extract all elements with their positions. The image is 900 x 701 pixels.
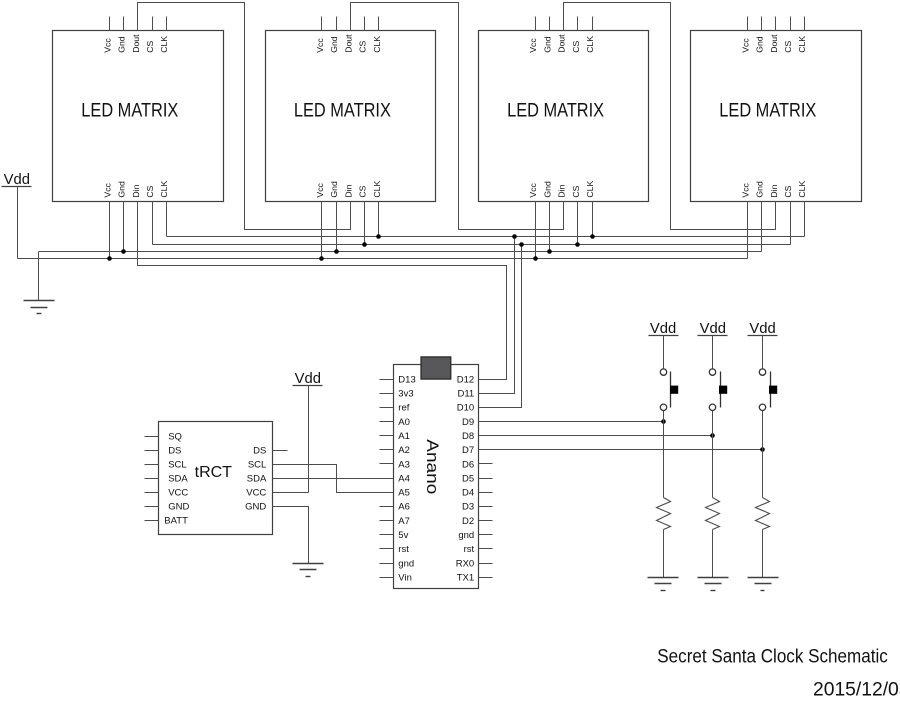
svg-text:Vcc: Vcc bbox=[528, 182, 538, 197]
junction U2 Gnd on GND bus bbox=[334, 249, 339, 254]
svg-text:LED MATRIX: LED MATRIX bbox=[507, 101, 604, 122]
pin CLK (top) U4 bbox=[797, 17, 807, 53]
svg-text:D11: D11 bbox=[457, 389, 474, 400]
pin CLK (top) U2 bbox=[372, 17, 382, 53]
pin Vcc (top) U4 bbox=[740, 17, 750, 53]
svg-text:Gnd: Gnd bbox=[542, 36, 552, 53]
pin label Vcc (bottom) U3 bbox=[528, 182, 538, 197]
pin label CLK (bottom) U2 bbox=[372, 180, 382, 197]
junction D11 on CLK bus bbox=[512, 234, 517, 239]
pin label Dout (top) U1 bbox=[131, 34, 141, 53]
svg-text:CLK: CLK bbox=[585, 180, 595, 197]
wire U4 Vcc pin to bus bbox=[747, 202, 749, 259]
svg-text:gnd: gnd bbox=[458, 530, 474, 541]
pin 3v3 U5 (left) bbox=[380, 389, 414, 400]
wire U2 CLK pin to bus bbox=[378, 202, 380, 237]
svg-text:GND: GND bbox=[245, 501, 266, 512]
pin A0 U5 (left) bbox=[380, 417, 410, 428]
wire U2 CS pin to bus bbox=[364, 202, 366, 245]
svg-text:Vin: Vin bbox=[398, 573, 412, 584]
pin Gnd (top) U2 bbox=[329, 17, 339, 53]
pin label DS U6 (right) bbox=[253, 445, 266, 456]
pin D5 U5 (right) bbox=[462, 473, 492, 484]
pin RX0 U5 (right) bbox=[456, 558, 493, 569]
svg-text:Gnd: Gnd bbox=[117, 36, 127, 53]
ground S1 bbox=[648, 578, 679, 591]
pin A2 U5 (left) bbox=[380, 445, 410, 456]
junction U2 CLK on CLK bus bbox=[376, 234, 381, 239]
wire S2 to resistor R2 bbox=[712, 411, 714, 498]
svg-text:D3: D3 bbox=[462, 502, 474, 513]
power symbol Vdd (S2) bbox=[698, 321, 728, 337]
svg-text:rst: rst bbox=[398, 544, 409, 555]
junction U1 Gnd on GND bus bbox=[121, 249, 126, 254]
power symbol Vdd (left rail) bbox=[2, 172, 32, 188]
wire U2 Vcc pin to bus bbox=[321, 202, 323, 259]
svg-text:CLK: CLK bbox=[797, 180, 807, 197]
pin Dout (top) U4 bbox=[769, 17, 779, 53]
svg-text:GND: GND bbox=[168, 501, 189, 512]
wire R3 to ground bbox=[762, 530, 764, 578]
svg-text:Secret Santa Clock Schematic: Secret Santa Clock Schematic bbox=[657, 647, 888, 668]
svg-text:CLK: CLK bbox=[159, 180, 169, 197]
resistor R1 bbox=[657, 498, 671, 530]
wire Vdd to switch S1 bbox=[663, 336, 665, 369]
junction D8 / S2 bbox=[710, 433, 715, 438]
junction U2 CS on CS bus bbox=[362, 242, 367, 247]
svg-text:CS: CS bbox=[145, 41, 155, 53]
pin SQ U6 (left) bbox=[145, 431, 182, 442]
pin D2 U5 (right) bbox=[462, 516, 492, 527]
pin label VCC U6 (right) bbox=[246, 487, 266, 498]
junction D9 / S1 bbox=[661, 419, 666, 424]
svg-text:Dout: Dout bbox=[557, 34, 567, 53]
svg-text:Dout: Dout bbox=[343, 34, 353, 53]
wire S1 to resistor R1 bbox=[663, 411, 665, 498]
svg-text:CS: CS bbox=[145, 185, 155, 197]
switch S3 (pushbutton) bbox=[759, 369, 777, 411]
pin label Gnd (bottom) U3 bbox=[542, 181, 552, 198]
pin A3 U5 (left) bbox=[380, 459, 410, 470]
svg-text:LED MATRIX: LED MATRIX bbox=[719, 101, 816, 122]
pin D13 U5 (left) bbox=[380, 374, 416, 385]
svg-text:A2: A2 bbox=[398, 445, 410, 456]
pin D4 U5 (right) bbox=[462, 488, 492, 499]
svg-text:A3: A3 bbox=[398, 459, 410, 470]
svg-text:A7: A7 bbox=[398, 516, 410, 527]
pin A4 U5 (left) bbox=[380, 473, 410, 484]
power symbol Vdd (S3) bbox=[748, 321, 778, 337]
svg-text:tRCT: tRCT bbox=[195, 464, 233, 481]
svg-text:Din: Din bbox=[557, 184, 567, 197]
wire Dout U2 to Din U3 (over-the-top bridge) bbox=[351, 3, 564, 230]
svg-text:Din: Din bbox=[131, 184, 141, 197]
wire U4 Gnd pin to bus bbox=[761, 202, 763, 252]
pin D11 U5 (right) bbox=[457, 389, 492, 400]
svg-text:Vdd: Vdd bbox=[4, 172, 30, 188]
svg-text:BATT: BATT bbox=[164, 515, 188, 526]
wire Vdd to VCC bus bbox=[17, 187, 19, 259]
svg-text:SQ: SQ bbox=[168, 431, 182, 442]
svg-text:Vcc: Vcc bbox=[740, 38, 750, 53]
LED matrix U2 bbox=[266, 31, 436, 202]
pin D9 U5 (right) bbox=[462, 417, 492, 428]
svg-text:Vcc: Vcc bbox=[528, 38, 538, 53]
wire U3 Vcc pin to bus bbox=[535, 202, 537, 259]
svg-text:Din: Din bbox=[343, 184, 353, 197]
svg-text:D8: D8 bbox=[462, 431, 474, 442]
svg-text:DS: DS bbox=[253, 445, 266, 456]
svg-text:VCC: VCC bbox=[246, 487, 266, 498]
junction U1 Vcc on VCC bus bbox=[107, 256, 112, 261]
wire U4 CS pin to bus bbox=[790, 202, 792, 245]
pin CS (top) U2 bbox=[358, 17, 368, 53]
ground S2 bbox=[698, 578, 729, 591]
power symbol Vdd (S1) bbox=[649, 321, 679, 337]
svg-text:Vcc: Vcc bbox=[315, 182, 325, 197]
pin A5 U5 (left) bbox=[380, 488, 410, 499]
svg-text:Vdd: Vdd bbox=[700, 321, 726, 337]
pin D3 U5 (right) bbox=[462, 502, 492, 513]
svg-text:Vdd: Vdd bbox=[650, 321, 676, 337]
svg-text:CS: CS bbox=[783, 185, 793, 197]
wire Dout U1 to Din U2 (over-the-top bridge) bbox=[138, 3, 351, 230]
svg-text:SDA: SDA bbox=[168, 473, 188, 484]
pin D12 U5 (right) bbox=[457, 374, 474, 385]
svg-text:LED MATRIX: LED MATRIX bbox=[294, 101, 391, 122]
svg-text:rst: rst bbox=[464, 544, 475, 555]
wire U1 Vcc pin to bus bbox=[109, 202, 111, 259]
junction U3 CLK on CLK bus bbox=[590, 234, 595, 239]
LED matrix U4 bbox=[691, 31, 862, 202]
pin gnd U5 (left) bbox=[380, 558, 415, 569]
pin rst U5 (left) bbox=[380, 544, 410, 555]
svg-text:CLK: CLK bbox=[585, 36, 595, 53]
svg-text:A5: A5 bbox=[398, 488, 410, 499]
pin D6 U5 (right) bbox=[462, 459, 492, 470]
wire D8 to switch S2 bbox=[479, 435, 713, 437]
pin label Vcc (bottom) U2 bbox=[315, 182, 325, 197]
svg-text:2015/12/05: 2015/12/05 bbox=[813, 680, 900, 697]
junction D10 on CS bus bbox=[519, 242, 524, 247]
wire U1 CLK pin to bus bbox=[166, 202, 168, 237]
pin label Dout (top) U3 bbox=[557, 34, 567, 53]
svg-text:Din: Din bbox=[769, 184, 779, 197]
pin label SCL U6 (right) bbox=[248, 459, 266, 470]
LED matrix U3 bbox=[479, 31, 649, 202]
pin D7 U5 (right) bbox=[462, 445, 492, 456]
pin A7 U5 (left) bbox=[380, 516, 410, 527]
svg-text:VCC: VCC bbox=[168, 487, 188, 498]
svg-text:D7: D7 bbox=[462, 445, 474, 456]
svg-text:Anano: Anano bbox=[423, 439, 442, 494]
power symbol Vdd (tRCT) bbox=[293, 371, 323, 387]
pin A1 U5 (left) bbox=[380, 431, 410, 442]
svg-text:RX0: RX0 bbox=[456, 558, 474, 569]
svg-text:Gnd: Gnd bbox=[755, 36, 765, 53]
pin label Vcc (bottom) U4 bbox=[740, 182, 750, 197]
svg-text:CS: CS bbox=[358, 41, 368, 53]
svg-text:D6: D6 bbox=[462, 459, 474, 470]
pin gnd U5 (right) bbox=[458, 530, 492, 541]
svg-text:Gnd: Gnd bbox=[329, 181, 339, 198]
wire Vdd to switch S3 bbox=[762, 336, 764, 369]
pin SDA U6 (left) bbox=[145, 473, 189, 484]
svg-text:TX1: TX1 bbox=[457, 573, 474, 584]
svg-text:Vcc: Vcc bbox=[315, 38, 325, 53]
pin Vin U5 (left) bbox=[380, 573, 412, 584]
IC U5 Anano (Arduino Nano) body bbox=[394, 365, 479, 589]
svg-text:gnd: gnd bbox=[398, 558, 414, 569]
pin VCC U6 (left) bbox=[145, 487, 189, 498]
wire SDA to A4 bbox=[273, 478, 380, 480]
pin label Din (bottom) U3 bbox=[557, 184, 567, 197]
pin 5v U5 (left) bbox=[380, 530, 409, 541]
pin label Vcc (bottom) U1 bbox=[102, 182, 112, 197]
svg-text:DS: DS bbox=[168, 445, 181, 456]
pin D8 U5 (right) bbox=[462, 431, 492, 442]
wire DIN net (D12 to U1 Din) bbox=[138, 202, 507, 380]
wire U3 CLK pin to bus bbox=[592, 202, 594, 237]
svg-text:Gnd: Gnd bbox=[117, 181, 127, 198]
pin label CS (bottom) U2 bbox=[358, 185, 368, 197]
pin rst U5 (right) bbox=[464, 544, 493, 555]
svg-text:LED MATRIX: LED MATRIX bbox=[81, 101, 178, 122]
pin label Din (bottom) U1 bbox=[131, 184, 141, 197]
svg-text:A6: A6 bbox=[398, 502, 410, 513]
pin label CS (bottom) U4 bbox=[783, 185, 793, 197]
junction U3 CS on CS bus bbox=[575, 242, 580, 247]
pin label CS (bottom) U1 bbox=[145, 185, 155, 197]
svg-text:Vcc: Vcc bbox=[102, 182, 112, 197]
pin DS U6 right stub bbox=[273, 450, 288, 452]
svg-text:CS: CS bbox=[783, 41, 793, 53]
svg-text:SCL: SCL bbox=[248, 459, 266, 470]
svg-text:Dout: Dout bbox=[769, 34, 779, 53]
junction D7 / S3 bbox=[760, 447, 765, 452]
pin CS (top) U3 bbox=[571, 17, 581, 53]
svg-text:SDA: SDA bbox=[247, 473, 267, 484]
wire GND U6 to ground bbox=[273, 507, 309, 564]
svg-text:A1: A1 bbox=[398, 431, 410, 442]
wire GND bus to ground bbox=[38, 252, 40, 301]
wire U3 CS pin to bus bbox=[577, 202, 579, 245]
resistor R2 bbox=[706, 498, 720, 530]
switch S2 (pushbutton) bbox=[709, 369, 727, 411]
svg-text:A4: A4 bbox=[398, 473, 410, 484]
svg-text:5v: 5v bbox=[398, 530, 408, 541]
svg-text:Vcc: Vcc bbox=[102, 38, 112, 53]
pin CS (top) U1 bbox=[145, 17, 155, 53]
junction U3 Vcc on VCC bus bbox=[533, 256, 538, 261]
pin Gnd (top) U3 bbox=[542, 17, 552, 53]
wire S3 to resistor R3 bbox=[762, 411, 764, 498]
wire D9 to switch S1 bbox=[479, 421, 664, 423]
junction U3 Gnd on GND bus bbox=[547, 249, 552, 254]
pin Gnd (top) U4 bbox=[755, 17, 765, 53]
pin Vcc (top) U2 bbox=[315, 17, 325, 53]
svg-text:CLK: CLK bbox=[797, 36, 807, 53]
pin label Gnd (bottom) U4 bbox=[755, 181, 765, 198]
svg-text:CS: CS bbox=[571, 185, 581, 197]
wire CLK bus bbox=[167, 236, 805, 238]
svg-text:CLK: CLK bbox=[159, 36, 169, 53]
pin label CLK (bottom) U1 bbox=[159, 180, 169, 197]
pin label CS (bottom) U3 bbox=[571, 185, 581, 197]
pin D10 U5 (right) bbox=[457, 403, 493, 414]
wire D7 to switch S3 bbox=[479, 449, 763, 451]
svg-text:Gnd: Gnd bbox=[542, 181, 552, 198]
wire VCC U6 to Vdd bbox=[273, 492, 309, 494]
wire Vdd drop to VCC U6 bbox=[308, 386, 310, 493]
svg-text:D9: D9 bbox=[462, 417, 474, 428]
pin CLK (top) U3 bbox=[585, 17, 595, 53]
wire CS bus bbox=[153, 244, 791, 246]
pin GND U6 (left) bbox=[145, 501, 190, 512]
svg-text:D4: D4 bbox=[462, 488, 474, 499]
wire R2 to ground bbox=[712, 530, 714, 578]
pin label CLK (bottom) U3 bbox=[585, 180, 595, 197]
svg-text:A0: A0 bbox=[398, 417, 410, 428]
ground tRCT bbox=[293, 564, 324, 577]
pin ref U5 (left) bbox=[380, 403, 410, 414]
pin BATT U6 (left) bbox=[145, 515, 189, 526]
pin label Dout (top) U2 bbox=[343, 34, 353, 53]
wire D11 to CLK bus bbox=[479, 237, 515, 394]
svg-text:Vdd: Vdd bbox=[295, 371, 321, 387]
wire SCL to A5 bbox=[273, 465, 380, 493]
wire U2 Gnd pin to bus bbox=[336, 202, 338, 252]
wire U1 Gnd pin to bus bbox=[123, 202, 125, 252]
pin TX1 U5 (right) bbox=[457, 573, 493, 584]
IC U6 tRCT (RTC) body bbox=[159, 422, 273, 535]
pin label Gnd (bottom) U2 bbox=[329, 181, 339, 198]
wire VCC bus bbox=[18, 258, 748, 260]
ground left rail bbox=[24, 301, 55, 314]
resistor R3 bbox=[756, 498, 770, 530]
pin label SDA U6 (right) bbox=[247, 473, 267, 484]
wire Dout U3 to Din U4 (over-the-top bridge) bbox=[564, 3, 776, 230]
svg-text:D5: D5 bbox=[462, 473, 474, 484]
junction U2 Vcc on VCC bus bbox=[319, 256, 324, 261]
wire GND bus bbox=[39, 251, 762, 253]
pin Gnd (top) U1 bbox=[117, 17, 127, 53]
svg-text:Vcc: Vcc bbox=[740, 182, 750, 197]
svg-text:SCL: SCL bbox=[168, 459, 186, 470]
svg-text:D2: D2 bbox=[462, 516, 474, 527]
wire R1 to ground bbox=[663, 530, 665, 578]
svg-text:CLK: CLK bbox=[372, 36, 382, 53]
svg-text:3v3: 3v3 bbox=[398, 389, 413, 400]
svg-text:CS: CS bbox=[358, 185, 368, 197]
pin label Gnd (bottom) U1 bbox=[117, 181, 127, 198]
svg-text:D10: D10 bbox=[457, 403, 474, 414]
pin SCL U6 (left) bbox=[145, 459, 187, 470]
pin label Din (bottom) U2 bbox=[343, 184, 353, 197]
pin Vcc (top) U3 bbox=[528, 17, 538, 53]
wire D10 to CS bus bbox=[479, 245, 522, 408]
pin label Din (bottom) U4 bbox=[769, 184, 779, 197]
pin label CLK (bottom) U4 bbox=[797, 180, 807, 197]
wire U1 CS pin to bus bbox=[152, 202, 154, 245]
wire U4 CLK pin to bus bbox=[804, 202, 806, 237]
switch S1 (pushbutton) bbox=[660, 369, 678, 411]
LED matrix U1 bbox=[53, 31, 224, 202]
svg-text:CS: CS bbox=[571, 41, 581, 53]
svg-text:CLK: CLK bbox=[372, 180, 382, 197]
USB connector on U5 bbox=[421, 357, 451, 379]
svg-text:Gnd: Gnd bbox=[755, 181, 765, 198]
svg-text:Vdd: Vdd bbox=[749, 321, 775, 337]
svg-text:D13: D13 bbox=[398, 374, 415, 385]
wire U3 Gnd pin to bus bbox=[549, 202, 551, 252]
pin CS (top) U4 bbox=[783, 17, 793, 53]
ground S3 bbox=[748, 578, 779, 591]
pin Vcc (top) U1 bbox=[102, 17, 112, 53]
svg-text:Dout: Dout bbox=[131, 34, 141, 53]
svg-text:ref: ref bbox=[398, 403, 409, 414]
pin label GND U6 (right) bbox=[245, 501, 266, 512]
pin CLK (top) U1 bbox=[159, 17, 169, 53]
pin DS U6 (left) bbox=[145, 445, 182, 456]
pin A6 U5 (left) bbox=[380, 502, 410, 513]
svg-text:D12: D12 bbox=[457, 374, 474, 385]
svg-text:Gnd: Gnd bbox=[329, 36, 339, 53]
wire Vdd to switch S2 bbox=[712, 336, 714, 369]
